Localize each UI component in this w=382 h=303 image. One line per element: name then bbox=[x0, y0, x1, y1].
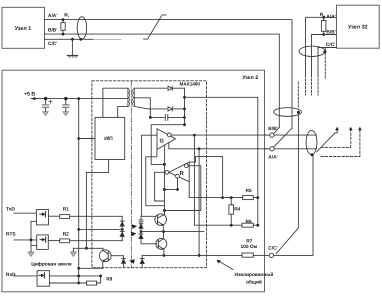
gate1 input 2 bbox=[31, 220, 36, 222]
receiver bias tap A' to common bbox=[198, 149, 200, 256]
svg-text:G: G bbox=[160, 139, 164, 145]
big box Узел 2 bbox=[2, 70, 265, 292]
gate 1 bbox=[36, 210, 48, 225]
R enable wire to Q1 node bbox=[165, 166, 201, 211]
isolated common line bbox=[142, 254, 242, 256]
svg-text:R9: R9 bbox=[106, 277, 112, 283]
svg-text:R: R bbox=[180, 171, 184, 177]
wire B/B' top bus bbox=[45, 34, 280, 127]
R top input path bbox=[189, 157, 222, 198]
diode D1 bbox=[168, 86, 185, 90]
diode D2 bbox=[168, 107, 185, 111]
dashed continuations to other nodes bbox=[321, 130, 360, 157]
photodiode column bbox=[141, 216, 155, 219]
svg-text:А/А': А/А' bbox=[48, 13, 57, 19]
R2 line to LED bbox=[70, 240, 123, 242]
svg-text:RTS: RTS bbox=[6, 232, 16, 238]
svg-text:R2: R2 bbox=[63, 231, 69, 237]
transformer T1 bbox=[103, 88, 134, 117]
wire A/A' top bus bbox=[45, 20, 293, 129]
svg-text:ТхD: ТхD bbox=[6, 207, 15, 213]
C' terminal bbox=[265, 254, 270, 256]
RxD LED bbox=[140, 255, 144, 267]
wire B (node32) bbox=[312, 35, 337, 76]
resistor R6 bbox=[242, 223, 253, 227]
continuation of pair through shield bbox=[317, 129, 338, 152]
svg-text:R4: R4 bbox=[234, 206, 240, 212]
svg-text:Цифровая земля: Цифровая земля bbox=[31, 262, 72, 268]
svg-text:MAX1480: MAX1480 bbox=[180, 82, 201, 87]
svg-text:В/В': В/В' bbox=[326, 30, 335, 36]
ground arrow 1 bbox=[30, 246, 32, 252]
A' terminal bbox=[265, 148, 270, 150]
G lower output to node bbox=[164, 145, 166, 165]
+Viso rail vertical bbox=[184, 88, 186, 125]
R bottom input path bbox=[188, 182, 190, 198]
wire under R bbox=[164, 189, 177, 191]
svg-text:100 Ом: 100 Ом bbox=[241, 244, 258, 250]
shield drain tie bbox=[324, 48, 326, 51]
cable shield ellipse (left segment) bbox=[77, 17, 86, 39]
junction dots on Rt bbox=[62, 18, 65, 21]
secondary bottom wire to D2 bbox=[134, 106, 148, 109]
svg-text:RxD: RxD bbox=[6, 272, 16, 278]
capacitor C2 bbox=[63, 99, 69, 116]
receiver amp R bbox=[165, 162, 189, 182]
receiver input tap B' bbox=[194, 135, 242, 225]
svg-text:А/А': А/А' bbox=[268, 154, 277, 160]
secondary top wire to D1 bbox=[134, 87, 167, 89]
Q3 emitter path bbox=[79, 261, 103, 268]
RxD photodiode bbox=[122, 256, 126, 267]
G output line to A' bbox=[169, 143, 267, 149]
power supply box И/П bbox=[95, 117, 125, 159]
cable shield ellipse (node32 segment) bbox=[299, 46, 325, 56]
resistor R5 bbox=[243, 196, 254, 200]
R1 line to LED bbox=[70, 215, 123, 217]
svg-text:R6: R6 bbox=[246, 219, 252, 225]
TxD line bbox=[14, 212, 36, 214]
svg-text:С/С': С/С' bbox=[48, 41, 57, 47]
RxD line bbox=[14, 275, 37, 277]
+5V rail bbox=[31, 98, 128, 100]
svg-text:И/П: И/П bbox=[104, 136, 113, 142]
resistor R4 (vertical) bbox=[229, 205, 234, 214]
svg-text:общий: общий bbox=[246, 280, 262, 286]
TxD LED column bbox=[121, 216, 123, 221]
gate1 output to R1 bbox=[49, 215, 60, 217]
svg-text:С/С': С/С' bbox=[326, 42, 335, 48]
crossover diagonals to bus bbox=[274, 128, 280, 134]
dashed continuation stub bbox=[297, 82, 299, 108]
gate 2 bbox=[37, 235, 49, 250]
gate2 output to R2 bbox=[48, 240, 59, 242]
wire A (node32) bbox=[306, 17, 337, 75]
ground arrow 2 bbox=[70, 252, 76, 257]
node box Узел 32 bbox=[337, 5, 380, 48]
LED mid +5V wire bbox=[79, 228, 123, 230]
chassis ground symbol bbox=[68, 56, 78, 58]
line break slash bbox=[144, 15, 166, 39]
svg-text:Изолированный: Изолированный bbox=[235, 272, 274, 278]
smoothing capacitor bbox=[150, 114, 184, 120]
G output line to B' bbox=[171, 134, 266, 136]
capacitor C1 (polarized) bbox=[43, 99, 52, 116]
G enable input loop bbox=[146, 150, 165, 206]
line from photodiode mid to right bbox=[141, 231, 204, 233]
resistor Rt (right terminator) bbox=[321, 21, 326, 32]
svg-text:R1: R1 bbox=[63, 206, 69, 212]
G input wire bbox=[142, 135, 157, 216]
node box Узел 1 bbox=[2, 7, 45, 48]
Q1 collector up bbox=[163, 164, 165, 214]
phototransistor Q2 bbox=[156, 232, 167, 256]
+5V drop wire bbox=[78, 99, 80, 283]
MAX1480 dashed box bbox=[92, 81, 207, 268]
RTS branch to gate1/gate2 bbox=[31, 221, 37, 245]
svg-text:Узел 2: Узел 2 bbox=[242, 75, 258, 81]
isolation barrier (dash-dot) bbox=[130, 81, 132, 268]
resistor R7 in common line bbox=[242, 253, 253, 257]
wire C/C' from node 1 bbox=[45, 38, 94, 40]
Q3 base wire bbox=[111, 255, 124, 257]
resistor R2 bbox=[60, 239, 70, 243]
И/П ground pin path bbox=[86, 160, 108, 249]
driver amp G bbox=[157, 129, 176, 150]
incoming cable shield ellipse (lower) bbox=[274, 108, 302, 117]
wire C (node32) bbox=[318, 48, 337, 76]
svg-text:R7: R7 bbox=[246, 238, 252, 244]
R input line (R5 line) bbox=[189, 197, 242, 199]
RxD light arrows bbox=[129, 259, 135, 264]
R bottom circle wire bbox=[177, 178, 179, 189]
RTS line bbox=[14, 239, 37, 241]
driver amp G wiring: feed from Viso bbox=[151, 125, 184, 165]
resistor R9 bbox=[87, 281, 97, 285]
svg-text:+5 В: +5 В bbox=[24, 91, 35, 97]
svg-text:Узел 1: Узел 1 bbox=[15, 26, 32, 32]
outgoing cable shield ellipse (vertical) bbox=[306, 130, 317, 154]
gate3 lower wire to R9 bbox=[49, 282, 86, 284]
light arrows TxD/RTS bbox=[132, 224, 138, 229]
svg-text:R5: R5 bbox=[246, 188, 252, 194]
resistor R1 bbox=[60, 215, 70, 219]
+Viso feed to right side bbox=[185, 97, 258, 225]
wire secondary bottom to D2 bbox=[148, 108, 167, 110]
svg-text:В/В': В/В' bbox=[268, 126, 277, 132]
B' terminal bbox=[265, 134, 270, 136]
svg-text:В/В': В/В' bbox=[48, 28, 57, 34]
svg-text:Узел 32: Узел 32 bbox=[348, 25, 368, 31]
callout arrow to isolated common bbox=[218, 261, 233, 270]
phototransistor Q3 bbox=[99, 248, 111, 261]
Q3 collector line bbox=[74, 247, 104, 249]
C' diagonal to shield bbox=[276, 113, 298, 254]
resistor Rt (left terminator) bbox=[61, 20, 65, 34]
И/П +5V pin bbox=[79, 138, 95, 140]
gate 3 (RxD) bbox=[37, 271, 49, 287]
R output path to RxD LED bbox=[155, 172, 165, 201]
gate3 input line bbox=[49, 275, 100, 277]
svg-text:С/С': С/С' bbox=[268, 245, 277, 251]
phototransistor Q1 bbox=[155, 209, 167, 232]
svg-text:А/А': А/А' bbox=[326, 14, 335, 20]
ground tap on C bbox=[71, 39, 73, 55]
secondary center tap to iso common bbox=[134, 98, 150, 118]
